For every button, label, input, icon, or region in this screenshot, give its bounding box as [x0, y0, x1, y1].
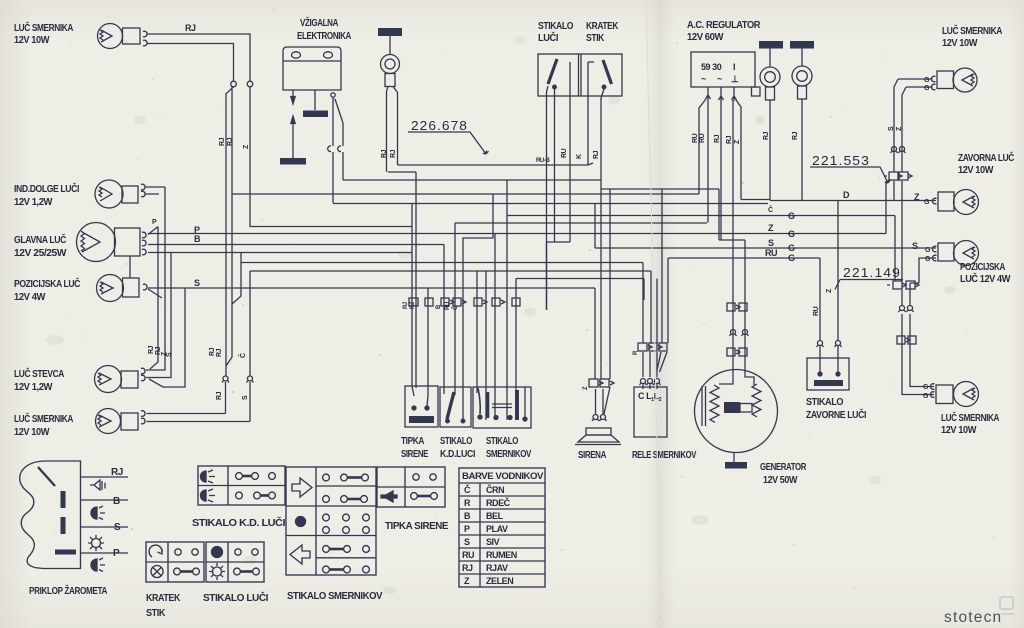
svg-text:12V 10W: 12V 10W	[941, 425, 977, 436]
svg-text:P: P	[464, 524, 470, 534]
P diagonal from glavna	[148, 227, 158, 235]
lamp LUČ SMERNIKA top-left	[98, 24, 148, 49]
wire vertical x444	[443, 245, 445, 395]
svg-text:RU: RU	[699, 133, 706, 143]
table KRATEK STIK	[146, 542, 204, 582]
svg-text:12V 10W: 12V 10W	[942, 38, 978, 49]
siren terminals y414	[592, 415, 607, 422]
svg-text:RJ: RJ	[209, 347, 216, 356]
svg-text:221.553: 221.553	[812, 153, 870, 168]
bus H-main y200.5 D-Z to zavorna	[770, 200, 936, 202]
table STIKALO K.D. LUČI	[198, 466, 285, 505]
svg-text:LUČ SMERNIKA: LUČ SMERNIKA	[942, 24, 1002, 37]
svg-text:LUČ 12V 4W: LUČ 12V 4W	[960, 272, 1011, 285]
bus H5 y203.5	[333, 203, 768, 205]
bus H189 y189	[601, 188, 719, 190]
bus H16 S y288	[148, 287, 595, 289]
priklop pin line B	[81, 499, 129, 501]
svg-text:R: R	[464, 498, 471, 508]
svg-text:POZICIJSKA LUČ: POZICIJSKA LUČ	[14, 277, 80, 290]
svg-text:⊥: ⊥	[731, 74, 739, 84]
svg-text:B: B	[113, 496, 120, 507]
box STIKALO K.D.LUČI	[440, 387, 471, 427]
icon headlight 1	[91, 506, 105, 520]
svg-text:SIRENA: SIRENA	[578, 450, 606, 461]
svg-text:RJ: RJ	[381, 149, 388, 158]
wire vertical x657 rele	[656, 279, 658, 378]
svg-text:KRATEK: KRATEK	[586, 21, 619, 32]
svg-text:221.149: 221.149	[843, 265, 901, 280]
svg-text:RU-B: RU-B	[536, 158, 550, 164]
svg-text:KRATEK: KRATEK	[146, 593, 181, 604]
bus H14 y271	[250, 270, 651, 272]
wire glavna socket to pozicijska socket	[129, 256, 131, 278]
svg-text:RJ: RJ	[462, 563, 473, 573]
watermark stotecn	[944, 597, 1014, 626]
bus H8 P-Z y233.5	[148, 233, 886, 235]
wire vertical x662 rele	[657, 189, 662, 370]
generator	[695, 370, 778, 469]
wires below kratek stik switch	[588, 66, 604, 165]
wire vertical x643 rele	[642, 263, 644, 378]
svg-text:S: S	[888, 126, 895, 131]
svg-text:RU: RU	[813, 306, 820, 316]
connector cluster mid tables y302	[409, 298, 520, 306]
wire vertical x820 brake	[819, 258, 821, 340]
svg-text:LUČ SMERNIKA: LUČ SMERNIKA	[941, 411, 999, 424]
svg-text:STIKALO: STIKALO	[806, 397, 844, 408]
svg-text:G: G	[788, 211, 795, 221]
wire vertical x428	[427, 288, 428, 406]
wire vertical x601 siren	[601, 98, 603, 414]
svg-text:12V 50W: 12V 50W	[763, 475, 798, 486]
svg-text:A.C. REGULATOR: A.C. REGULATOR	[687, 20, 761, 31]
svg-text:RJ: RJ	[403, 302, 409, 309]
priklop pin line RJ	[81, 476, 129, 478]
regulator terminals	[706, 87, 737, 101]
wire vertical x416	[415, 172, 417, 388]
connector cluster siren y381	[589, 379, 614, 414]
svg-text:TIPKA SIRENE: TIPKA SIRENE	[385, 521, 449, 532]
ignition coil symbol	[378, 28, 402, 87]
svg-text:12V 1,2W: 12V 1,2W	[14, 197, 53, 208]
svg-text:RJ: RJ	[726, 135, 733, 144]
svg-text:226.678: 226.678	[411, 118, 468, 133]
box STIKALO LUČI / KRATEK STIK	[538, 54, 622, 96]
svg-text:Č: Č	[238, 353, 247, 358]
wire vertical x838 brake	[837, 201, 839, 341]
box TIPKA SIRENE	[405, 386, 438, 427]
wire vertical x455	[454, 223, 456, 395]
terminal pair right column y310	[899, 306, 914, 313]
lamp LUČ STEVCA	[95, 366, 146, 393]
wires below stikalo luči switch	[547, 62, 571, 310]
svg-text:ČRN: ČRN	[486, 484, 504, 495]
svg-text:B: B	[464, 511, 471, 521]
wire vertical x486	[485, 271, 487, 420]
svg-text:ZAVORNE LUČI: ZAVORNE LUČI	[806, 408, 867, 421]
svg-text:LUČI: LUČI	[538, 31, 559, 44]
wire vžigalna middle pin	[314, 90, 316, 110]
svg-text:VŽIGALNA: VŽIGALNA	[300, 16, 338, 29]
svg-text:RJ: RJ	[216, 348, 223, 357]
table TIPKA SIRENE	[377, 467, 445, 507]
svg-text:RU: RU	[561, 148, 568, 158]
wire vertical x895	[894, 216, 896, 282]
wire vertical x172	[146, 253, 171, 378]
svg-text:Č: Č	[768, 205, 773, 214]
svg-text:RJAV: RJAV	[486, 563, 508, 573]
svg-text:S: S	[194, 278, 200, 288]
svg-text:G: G	[788, 253, 795, 263]
bus H6 Č y213.5	[507, 215, 895, 217]
wire vertical x507	[506, 180, 508, 420]
wire vertical x183	[149, 288, 185, 387]
wires below coil	[387, 87, 398, 173]
lamp POZICIJSKA LUČ left	[97, 275, 148, 302]
svg-text:POZICIJSKA: POZICIJSKA	[960, 262, 1005, 273]
svg-text:RU: RU	[445, 302, 451, 310]
lamp LUČ SMERNIKA bottom-left	[96, 409, 146, 434]
wire vertical x516	[515, 279, 517, 396]
svg-text:RELE SMERNIKOV: RELE SMERNIKOV	[632, 450, 697, 461]
svg-text:SIRENE: SIRENE	[401, 449, 429, 460]
wire IND lamp stubs	[145, 187, 166, 194]
lamp ZAVORNA LUČ	[932, 190, 978, 215]
diagonal pozicijska stub	[148, 289, 162, 298]
svg-text:P: P	[113, 548, 120, 559]
bus H199.5	[741, 199, 770, 201]
svg-text:RJ: RJ	[219, 137, 226, 146]
svg-text:STIKALO: STIKALO	[440, 436, 473, 447]
wire vertical RJ x232	[226, 87, 241, 366]
icon headlight 2	[91, 558, 105, 572]
svg-text:STIKALO K.D. LUČI: STIKALO K.D. LUČI	[192, 516, 286, 529]
box VŽIGALNA ELEKTRONIKA	[283, 47, 341, 90]
icon sun P	[88, 535, 104, 551]
icon speaker small	[90, 480, 105, 490]
wire vertical x902	[902, 87, 934, 395]
box STIKALO SMERNIKOV	[473, 387, 531, 428]
svg-text:12V 10W: 12V 10W	[958, 165, 994, 176]
svg-text:TIPKA: TIPKA	[401, 436, 424, 447]
wire vertical x545	[546, 242, 548, 310]
ref number 226.678	[408, 132, 489, 154]
wire vertical x644 stub	[643, 279, 645, 301]
wire vertical x158	[150, 227, 158, 369]
bus H2 y172	[388, 171, 416, 173]
wire vertical x651 rele	[650, 271, 651, 377]
svg-text:stotecn: stotecn	[944, 609, 1002, 626]
wire vertical x595 siren	[594, 204, 597, 415]
svg-text:RU: RU	[462, 550, 474, 560]
connector cluster right column y285	[887, 281, 919, 289]
table STIKALO SMERNIKOV	[286, 467, 376, 575]
ref number 221.553	[810, 167, 890, 183]
bus H12 RU y258	[668, 257, 820, 259]
lamp LUČ SMERNIKA bottom-right	[930, 382, 978, 407]
svg-text:RJ: RJ	[714, 134, 721, 143]
sirena speaker	[575, 428, 621, 445]
svg-text:RJ: RJ	[763, 131, 770, 140]
ring terminal 1	[759, 41, 783, 201]
wire pozicijskaR lower G	[919, 258, 936, 283]
svg-text:P: P	[152, 219, 157, 226]
connector pair symbols x226 x250 at 374	[222, 376, 254, 383]
svg-text:RJ: RJ	[593, 150, 600, 159]
svg-text:RDEČ: RDEČ	[486, 497, 511, 508]
junction circles top-left column	[231, 81, 237, 87]
svg-text:12V 1,2W: 12V 1,2W	[14, 382, 53, 393]
wire lamp BL long horizontals	[147, 414, 251, 422]
svg-text:BEL: BEL	[486, 511, 504, 521]
box RELE SMERNIKOV	[634, 387, 667, 437]
lamp POZICIJSKA LUČ right	[932, 241, 978, 266]
bus H10 B y244.5	[148, 244, 444, 246]
rele terminals y381	[640, 379, 661, 390]
scan fold line	[646, 0, 661, 628]
wire vertical x250 lower to H271	[249, 271, 251, 376]
svg-text:12V 60W: 12V 60W	[687, 32, 724, 43]
svg-text:B: B	[194, 234, 201, 244]
bus H4 y194	[241, 193, 699, 195]
svg-text:SIV: SIV	[486, 537, 500, 547]
priklop žarometa connector outline	[20, 461, 81, 569]
wire vertical RJ x226	[226, 87, 234, 376]
connector cluster rele y347	[638, 343, 667, 351]
box A.C. REGULATOR	[691, 52, 760, 96]
wire vertical x495	[494, 234, 496, 421]
svg-text:S: S	[166, 352, 173, 357]
svg-text:STIKALO LUČI: STIKALO LUČI	[203, 591, 269, 604]
svg-text:STIKALO SMERNIKOV: STIKALO SMERNIKOV	[287, 591, 383, 602]
box STIKALO ZAVORNE LUČI	[807, 346, 849, 391]
svg-text:G: G	[788, 243, 795, 253]
lamp IND.DOLGE LUČI	[95, 180, 145, 208]
wire vertical x167	[146, 187, 165, 370]
svg-text:12V 10W: 12V 10W	[14, 427, 50, 438]
priklop pin line S	[81, 526, 129, 528]
svg-text:S: S	[912, 241, 918, 251]
svg-text:ELEKTRONIKA: ELEKTRONIKA	[297, 31, 351, 42]
svg-text:RJ: RJ	[148, 345, 155, 354]
table BARVE VODNIKOV	[459, 468, 545, 587]
wire x226 lower join to lamp BL	[225, 382, 227, 414]
ref number 221.149	[835, 280, 903, 290]
svg-text:59 30: 59 30	[701, 62, 722, 72]
lamp GLAVNA LUČ	[77, 223, 147, 262]
svg-text:S: S	[242, 395, 249, 400]
svg-text:RU: RU	[765, 248, 777, 258]
lamp LUČ SMERNIKA top-right	[931, 68, 977, 92]
wire vertical x910	[910, 283, 934, 387]
wire x250 lower join to lamp BL	[249, 382, 251, 422]
svg-text:STIKALO: STIKALO	[486, 436, 519, 447]
wire vertical x668 rele	[660, 258, 669, 372]
svg-text:GENERATOR: GENERATOR	[760, 462, 807, 473]
wire vertical Z x250 upper	[250, 87, 412, 227]
wire vžigalna right pins down	[328, 93, 343, 203]
svg-text:IND.DOLGE LUČI: IND.DOLGE LUČI	[14, 182, 80, 195]
bus H11 S y249.5	[595, 247, 936, 249]
svg-text:RJ: RJ	[185, 23, 196, 33]
svg-text:LUČ SMERNIKA: LUČ SMERNIKA	[14, 412, 73, 425]
svg-text:RJ: RJ	[227, 137, 234, 146]
svg-text:STIK: STIK	[146, 608, 166, 619]
svg-text:RUMEN: RUMEN	[486, 550, 517, 560]
wire t3 glavna y252.5	[148, 253, 412, 305]
wire vertical x894	[894, 79, 898, 201]
ring terminal 2	[790, 41, 814, 201]
svg-text:LUČ STEVCA: LUČ STEVCA	[14, 367, 64, 380]
svg-text:S: S	[768, 238, 774, 248]
svg-text:RJ: RJ	[111, 467, 123, 478]
svg-text:STIK: STIK	[586, 33, 605, 44]
svg-text:K.D.LUCI: K.D.LUCI	[440, 449, 476, 460]
svg-text:SMERNIKOV: SMERNIKOV	[486, 449, 532, 460]
priklop pin line P	[81, 552, 129, 554]
bus H7 y223	[455, 222, 707, 224]
svg-text:GLAVNA LUČ: GLAVNA LUČ	[14, 233, 66, 246]
svg-text:D: D	[843, 190, 850, 200]
svg-text:~: ~	[717, 74, 722, 84]
bus H15 y278.5	[516, 278, 644, 280]
wire lamp TL to verticals	[147, 34, 251, 81]
connector cluster right column y340	[897, 336, 916, 344]
wire vertical x412	[412, 204, 414, 397]
connector arrows below vžigalna	[280, 90, 328, 165]
svg-text:K: K	[576, 154, 583, 159]
svg-text:RJ: RJ	[390, 149, 397, 158]
table STIKALO LUČI	[206, 542, 264, 582]
svg-text:ZAVORNA LUČ: ZAVORNA LUČ	[958, 151, 1014, 164]
svg-text:12V 10W: 12V 10W	[14, 35, 50, 46]
bus H240 y240	[719, 189, 754, 385]
wire vertical x886	[885, 181, 887, 234]
svg-text:BARVE VODNIKOV: BARVE VODNIKOV	[462, 471, 543, 481]
wire vertical x477	[476, 271, 478, 393]
wire lamp TR stubs	[898, 79, 933, 87]
svg-text:RJ: RJ	[216, 391, 223, 400]
terminal pair top right column y149	[891, 147, 906, 154]
svg-text:RJ: RJ	[410, 302, 416, 309]
svg-text:12V 4W: 12V 4W	[14, 292, 46, 303]
connector cluster right column y176	[884, 172, 912, 180]
svg-text:RU: RU	[692, 133, 699, 143]
generator wires clusters	[727, 303, 749, 356]
svg-text:S: S	[114, 522, 121, 533]
bus H1 y165	[398, 163, 594, 165]
svg-text:PLAV: PLAV	[486, 524, 508, 534]
wire vertical x612 siren	[609, 189, 611, 379]
brake switch terminals	[817, 341, 842, 348]
svg-text:G: G	[788, 229, 795, 239]
bus H13 y262.5	[241, 262, 643, 264]
svg-text:PRIKLOP ŽAROMETA: PRIKLOP ŽAROMETA	[29, 584, 107, 597]
svg-text:S: S	[464, 537, 470, 547]
svg-text:12V 25/25W: 12V 25/25W	[14, 248, 67, 259]
svg-text:RJ: RJ	[792, 131, 799, 140]
wire vertical x463	[463, 195, 493, 421]
svg-text:ZELEN: ZELEN	[486, 576, 513, 586]
wires below regulator	[699, 99, 741, 384]
svg-text:Č: Č	[464, 484, 471, 495]
svg-text:LUČ SMERNIKA: LUČ SMERNIKA	[14, 21, 73, 34]
svg-text:I: I	[733, 62, 735, 72]
bus H3 y180	[343, 179, 601, 181]
svg-text:~: ~	[701, 74, 706, 84]
